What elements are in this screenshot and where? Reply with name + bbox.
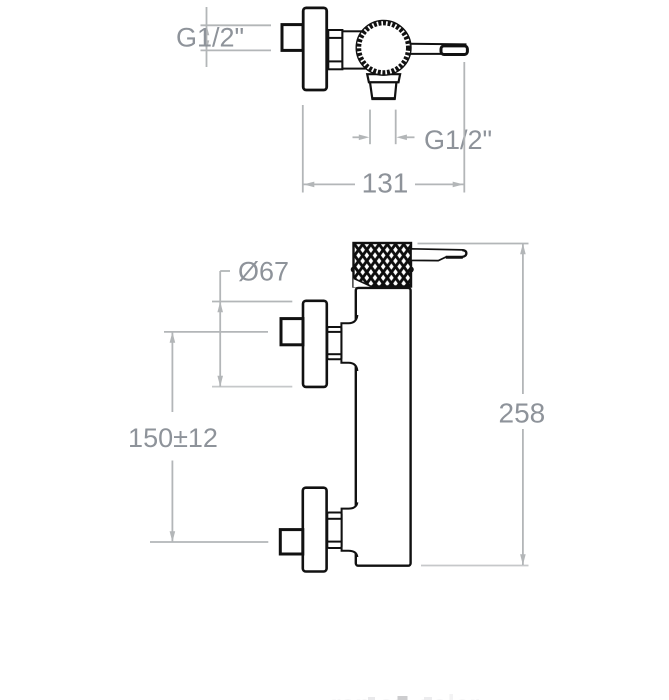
outlet upper collar (top view) bbox=[367, 74, 400, 82]
dim Ø67 extension line bottom (flange bottom) bbox=[212, 386, 292, 388]
dim Ø67 extension line top (flange top) bbox=[212, 301, 292, 303]
dim 150±12 extension line top (upper nipple centre) bbox=[164, 331, 268, 333]
dim 258 extension line top bbox=[418, 243, 529, 245]
lever arm top edge (top view) bbox=[410, 43, 467, 46]
dim 258 arrow top bbox=[520, 244, 526, 255]
dim Ø67 dimension line vertical bbox=[219, 271, 221, 387]
dim Ø67 arrow down bbox=[217, 376, 223, 387]
valve body circle (top view) bbox=[356, 20, 411, 75]
lever (front view) bbox=[411, 249, 467, 261]
svg-text:150±12: 150±12 bbox=[128, 423, 218, 453]
dim 131 arrow right bbox=[453, 182, 464, 188]
dim G1/2" (top-left) extension line lower bbox=[201, 49, 272, 51]
upper union nut flat bottom bbox=[327, 353, 341, 355]
dim G1/2" (top-left) arrow down bbox=[204, 40, 210, 50]
dim 150±12 arrow down bbox=[170, 531, 176, 542]
lower union boss with fillets (front view) bbox=[342, 502, 358, 557]
svg-text:G1/2": G1/2" bbox=[176, 23, 244, 53]
lower union nut flat top bbox=[327, 518, 341, 520]
dim G1/2" (top-left) dimension line vertical bbox=[206, 7, 208, 67]
valve body knurled ring (dashed) bbox=[359, 23, 409, 73]
upper inlet nipple (front view) bbox=[281, 319, 303, 345]
dim 131 dimension line left segment bbox=[304, 183, 356, 185]
hex nut flat lower bbox=[328, 60, 342, 62]
knurled cap (front view) bbox=[354, 243, 412, 287]
knurled cap bottom-left cut bbox=[354, 279, 374, 288]
dim G1/2" (top-left) extension line upper bbox=[201, 24, 272, 26]
knurl pivot bump left bbox=[351, 267, 357, 273]
dim 258 dimension line lower segment bbox=[522, 429, 524, 565]
outlet spout (top view) bbox=[370, 82, 396, 98]
lower union nut (front view) bbox=[327, 513, 341, 549]
dim G1/2" (outlet) extension line left bbox=[369, 110, 371, 145]
upper union boss with fillets (front view) bbox=[341, 315, 357, 371]
dim G1/2" (outlet) left leader with arrow bbox=[353, 136, 365, 138]
lever grip (top view) bbox=[441, 46, 467, 55]
svg-text:Ø67: Ø67 bbox=[238, 257, 289, 287]
upper union nut flat top bbox=[327, 331, 341, 333]
svg-text:G1/2": G1/2" bbox=[424, 125, 492, 155]
dim 131 extension line right bbox=[463, 62, 465, 193]
dim 258 dimension line upper segment bbox=[522, 244, 524, 395]
svg-text:258: 258 bbox=[499, 398, 546, 429]
dim 131 extension line left bbox=[302, 105, 304, 193]
lever grip thick underline (front view) bbox=[446, 256, 463, 259]
dim Ø67 top tick toward label bbox=[220, 270, 230, 272]
dim 258 extension line bottom bbox=[421, 565, 529, 567]
dim 150±12 dimension line lower segment bbox=[171, 461, 173, 543]
dim 150±12 extension line bottom (lower nipple centre) bbox=[150, 541, 268, 543]
valve connector block (top view) bbox=[342, 31, 365, 68]
inlet nipple (top view) bbox=[282, 25, 303, 51]
dim G1/2" (outlet) right leader with arrow bbox=[402, 136, 415, 138]
dim 131 dimension line right segment bbox=[415, 183, 464, 185]
dim Ø67 arrow up bbox=[217, 302, 223, 313]
upper union nut (front view) bbox=[327, 327, 341, 359]
dim G1/2" (outlet) extension line right bbox=[395, 110, 397, 145]
dim G1/2" (top-left) arrow up bbox=[204, 25, 210, 35]
lower wall flange (front view) bbox=[303, 488, 327, 572]
body (front view) bbox=[356, 288, 411, 566]
outlet spout bottom thick edge bbox=[372, 97, 396, 100]
hex nut flat upper bbox=[328, 37, 342, 39]
hex nut (top view) bbox=[328, 30, 342, 69]
lower union nut flat bottom bbox=[327, 541, 341, 543]
wall flange (top view) bbox=[303, 8, 327, 90]
lever end cap thick (front view) bbox=[462, 250, 466, 257]
knurl pivot bump right bbox=[408, 267, 414, 273]
dim 150±12 dimension line upper segment bbox=[171, 332, 173, 412]
svg-text:131: 131 bbox=[362, 168, 409, 199]
dim 150±12 arrow up bbox=[170, 332, 176, 343]
upper wall flange (front view) bbox=[303, 301, 327, 387]
dim 131 arrow left bbox=[304, 182, 315, 188]
lever arm bottom edge (top view) bbox=[410, 53, 442, 55]
dim 258 arrow bottom bbox=[520, 554, 526, 565]
lower inlet nipple (front view) bbox=[280, 530, 303, 554]
